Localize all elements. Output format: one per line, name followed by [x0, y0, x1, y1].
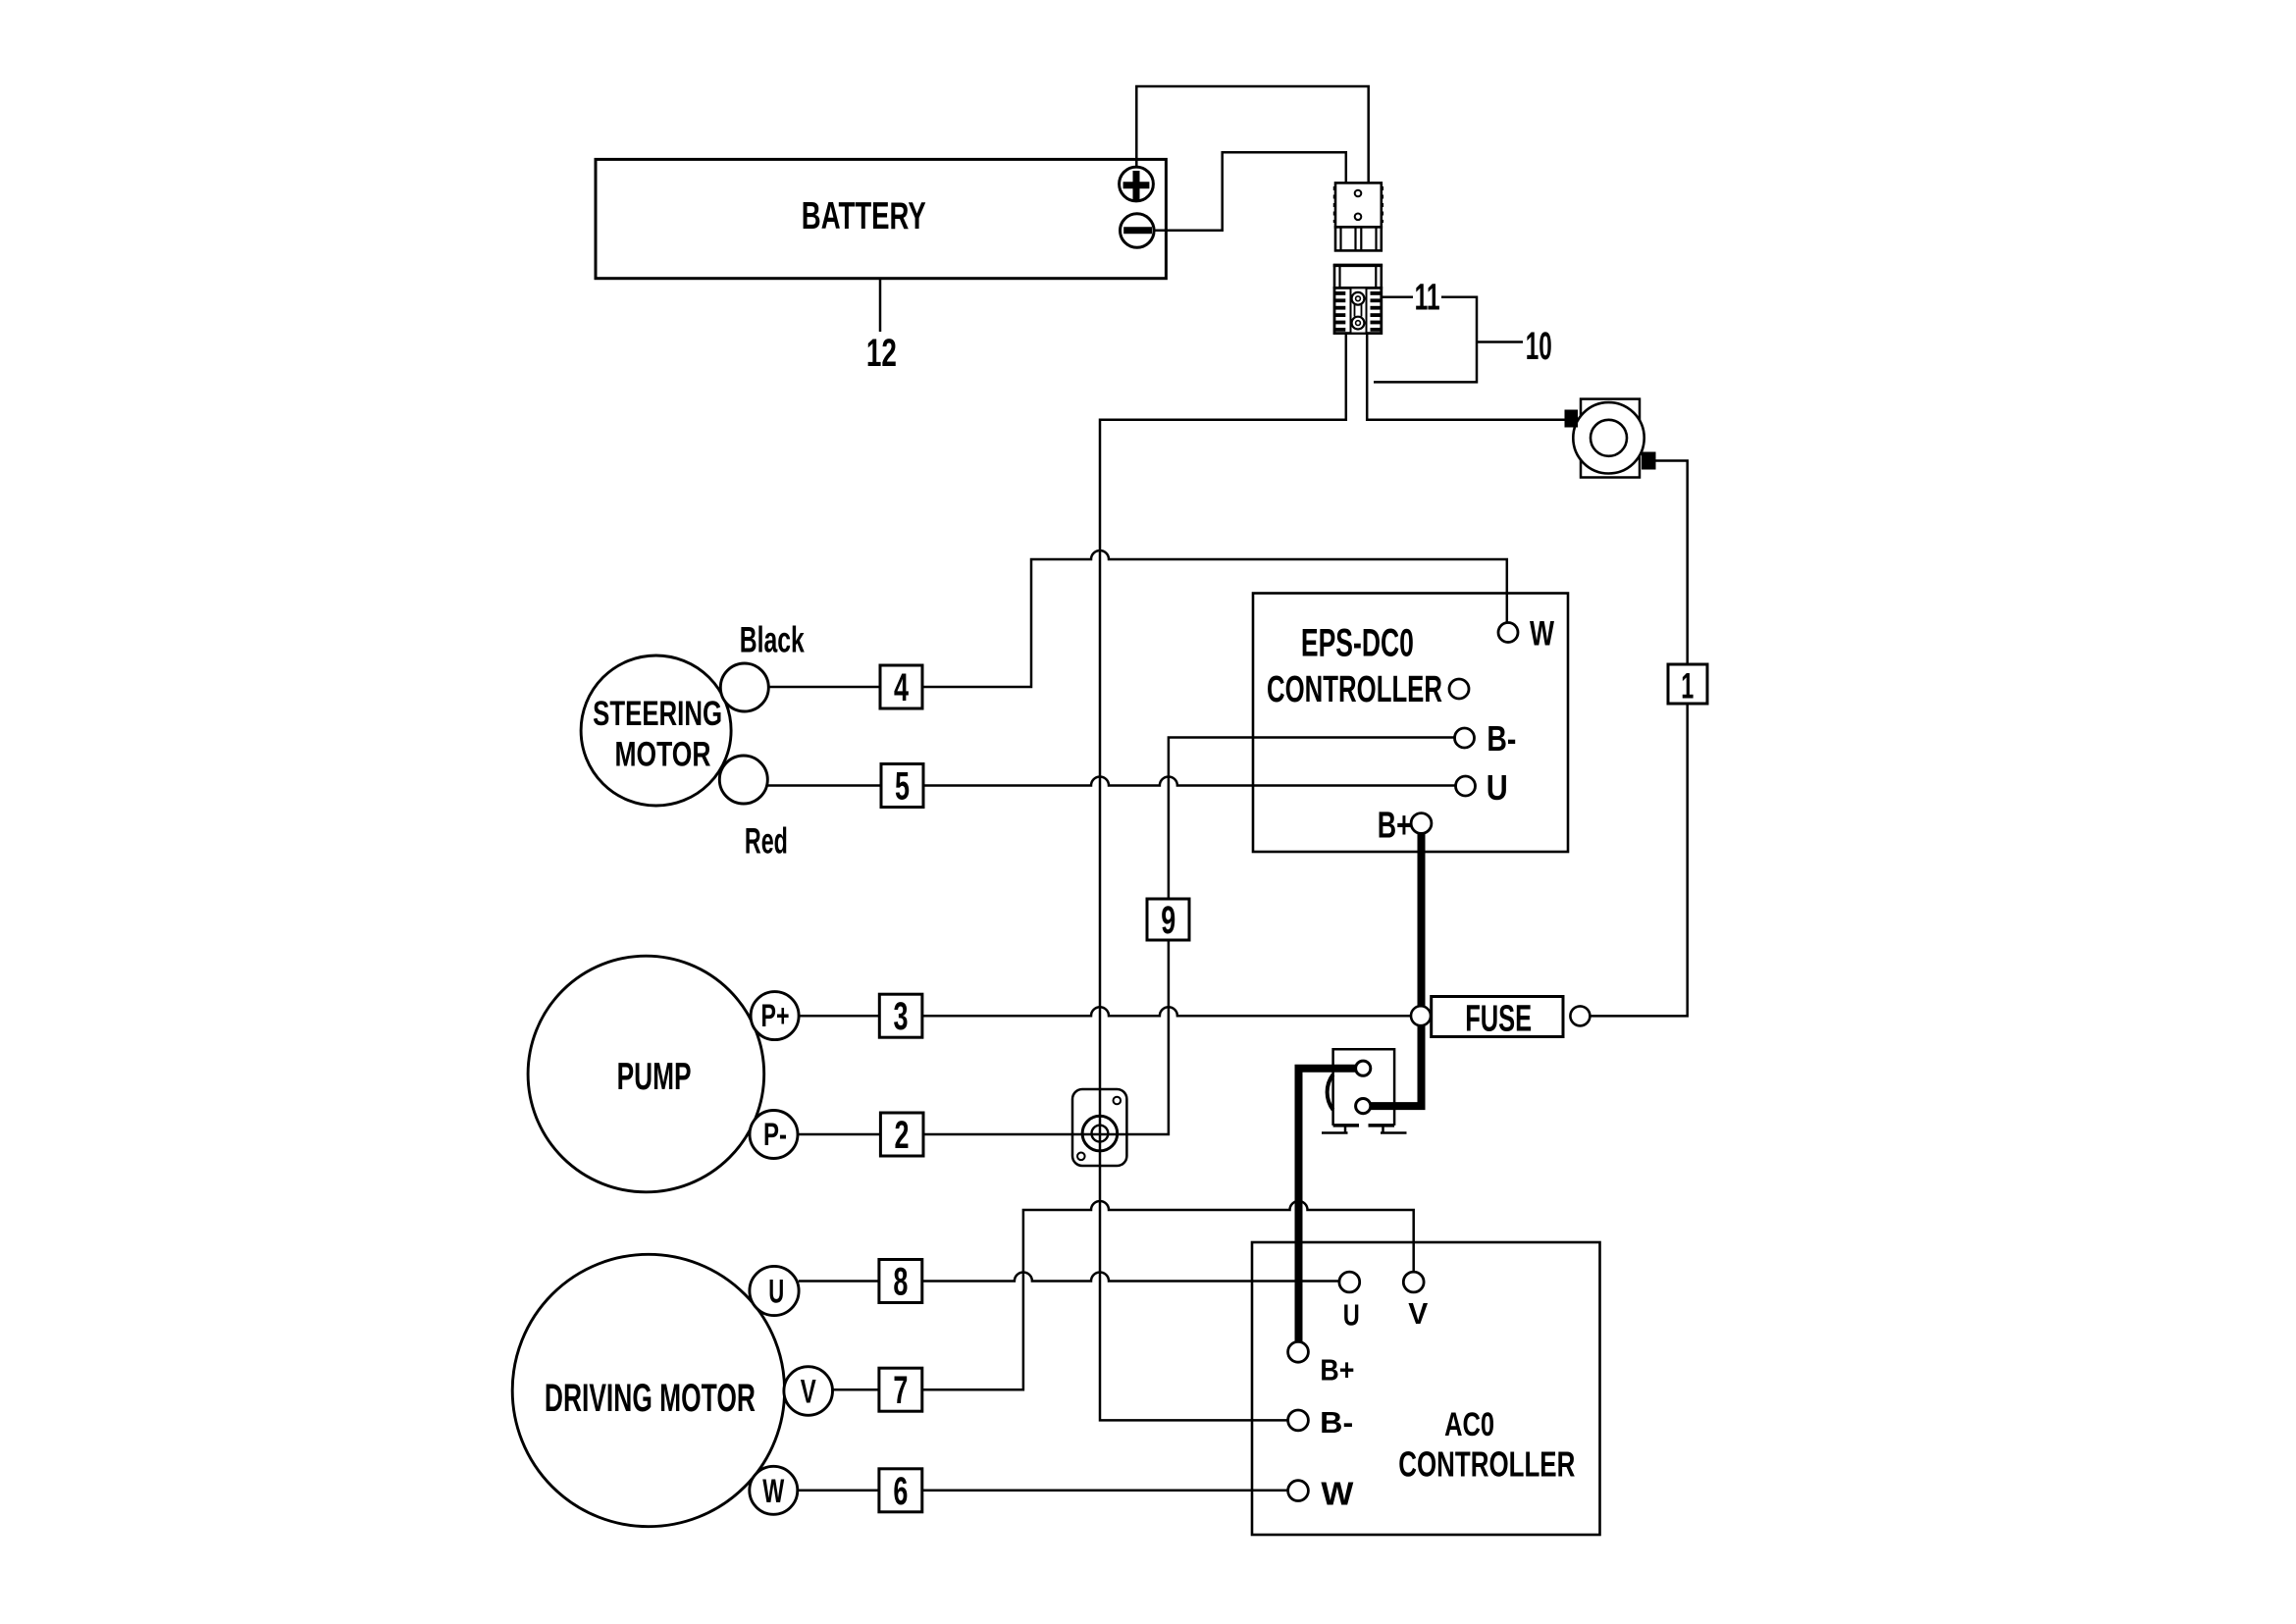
svg-text:9: 9 — [1161, 899, 1175, 942]
svg-text:B+: B+ — [1378, 806, 1412, 847]
svg-text:W: W — [762, 1473, 785, 1510]
svg-text:10: 10 — [1526, 325, 1552, 368]
svg-text:P+: P+ — [761, 998, 790, 1033]
svg-text:1: 1 — [1681, 666, 1694, 707]
svg-text:MOTOR: MOTOR — [615, 735, 711, 773]
svg-text:5: 5 — [895, 765, 910, 809]
svg-text:7: 7 — [893, 1369, 908, 1412]
svg-text:B-: B- — [1320, 1405, 1353, 1440]
svg-text:Red: Red — [745, 821, 788, 862]
svg-text:PUMP: PUMP — [617, 1056, 692, 1098]
svg-text:8: 8 — [893, 1261, 908, 1304]
svg-text:P-: P- — [763, 1117, 787, 1152]
svg-text:FUSE: FUSE — [1465, 999, 1532, 1040]
svg-text:12: 12 — [866, 332, 897, 375]
svg-text:CONTROLLER: CONTROLLER — [1398, 1444, 1575, 1485]
svg-text:B-: B- — [1487, 718, 1516, 759]
svg-text:EPS-DC0: EPS-DC0 — [1301, 622, 1414, 665]
svg-text:U: U — [1343, 1297, 1360, 1332]
svg-text:4: 4 — [894, 666, 910, 709]
svg-text:V: V — [1408, 1296, 1428, 1331]
svg-text:AC0: AC0 — [1444, 1406, 1494, 1443]
svg-text:11: 11 — [1415, 277, 1440, 318]
svg-text:B+: B+ — [1320, 1353, 1354, 1388]
svg-text:W: W — [1321, 1476, 1354, 1512]
svg-text:W: W — [1530, 615, 1554, 654]
svg-text:3: 3 — [894, 995, 909, 1038]
svg-text:V: V — [801, 1374, 816, 1411]
svg-text:DRIVING MOTOR: DRIVING MOTOR — [545, 1377, 756, 1420]
svg-text:2: 2 — [895, 1114, 910, 1157]
svg-text:BATTERY: BATTERY — [802, 195, 926, 237]
svg-text:U: U — [768, 1274, 784, 1311]
svg-text:CONTROLLER: CONTROLLER — [1267, 669, 1442, 710]
svg-text:6: 6 — [893, 1470, 908, 1513]
svg-text:U: U — [1487, 767, 1508, 808]
svg-text:Black: Black — [740, 620, 805, 660]
svg-text:STEERING: STEERING — [593, 695, 722, 733]
